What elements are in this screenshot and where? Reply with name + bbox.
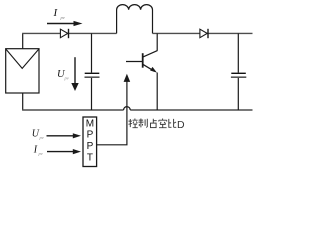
label: control duty cycle D (hand-drawn CJK strokes) [129, 119, 177, 128]
svg-text:pv: pv [64, 76, 69, 81]
svg-text:P: P [87, 130, 94, 141]
wire: top bus left segment [22, 32, 117, 34]
base bar [142, 53, 144, 67]
capacitor C2 [231, 33, 246, 110]
PV panel (solar cell) [6, 49, 39, 93]
char Bi3(ratio) [169, 119, 177, 127]
wire: MPPT output to control line [97, 144, 128, 146]
wire: PV top lead [22, 33, 24, 48]
collector lead [156, 33, 158, 50]
svg-text:T: T [87, 152, 93, 163]
wire: bottom bus right segment [130, 109, 252, 111]
svg-text:I: I [33, 144, 38, 155]
svg-text:pv: pv [60, 15, 65, 20]
inductor L [117, 5, 153, 34]
wire: PV bottom lead [22, 93, 24, 110]
transistor Q1 (NPN switch) [126, 33, 157, 110]
char Kong4(control) [129, 119, 138, 128]
wire: bottom bus left segment [22, 109, 124, 111]
char Zhan4(occupy) [151, 119, 157, 128]
emitter lead with arrow [143, 64, 155, 71]
base lead [126, 61, 143, 63]
control arrow to transistor base (duty cycle) [126, 82, 128, 145]
arrow Upv into MPPT [47, 135, 74, 137]
wire: top bus right segment [153, 32, 253, 34]
arrow Ipv into MPPT [47, 151, 74, 153]
diode D1 [60, 29, 68, 38]
svg-text:pv: pv [39, 135, 44, 140]
svg-text:pv: pv [38, 151, 43, 156]
char Zhi4(make) [139, 119, 148, 128]
svg-text:P: P [87, 141, 94, 152]
svg-text:I: I [53, 7, 59, 19]
MPPT controller block [83, 117, 97, 167]
svg-text:M: M [86, 118, 94, 129]
wire hop (control line crosses bottom bus) [124, 107, 131, 110]
arrow Ipv (current direction) [47, 23, 75, 25]
diode D2 [200, 29, 208, 38]
svg-text:D: D [177, 119, 185, 131]
arrow U (voltage direction, down) [74, 57, 76, 84]
capacitor C1 [85, 33, 100, 110]
char Kong1(empty) [159, 119, 167, 128]
